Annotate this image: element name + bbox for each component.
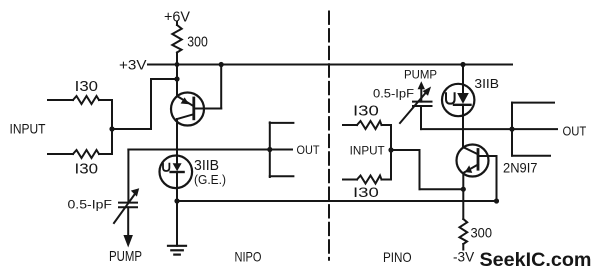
svg-text:-3V: -3V <box>453 250 475 265</box>
svg-text:I30: I30 <box>75 79 98 95</box>
svg-text:0.5-IpF: 0.5-IpF <box>68 197 113 211</box>
svg-text:+3V: +3V <box>119 57 147 73</box>
svg-text:3IIB: 3IIB <box>474 76 499 91</box>
svg-text:OUT: OUT <box>297 143 321 157</box>
svg-text:300: 300 <box>187 34 208 51</box>
svg-text:I30: I30 <box>353 104 379 120</box>
svg-text:INPUT: INPUT <box>350 145 385 157</box>
svg-text:SeekIC.com: SeekIC.com <box>480 250 592 271</box>
svg-text:I30: I30 <box>353 185 379 200</box>
svg-text:I30: I30 <box>75 162 99 178</box>
svg-text:INPUT: INPUT <box>10 122 47 137</box>
svg-text:2N9I7: 2N9I7 <box>503 161 538 176</box>
svg-text:NIPO: NIPO <box>235 250 262 265</box>
svg-text:(G.E.): (G.E.) <box>194 172 226 187</box>
svg-text:OUT: OUT <box>563 123 587 138</box>
svg-text:+6V: +6V <box>164 10 190 26</box>
svg-text:PUMP: PUMP <box>404 69 437 82</box>
svg-text:PUMP: PUMP <box>109 249 142 265</box>
svg-text:PINO: PINO <box>383 250 412 265</box>
svg-text:300: 300 <box>471 225 493 241</box>
svg-text:0.5-IpF: 0.5-IpF <box>373 87 414 101</box>
